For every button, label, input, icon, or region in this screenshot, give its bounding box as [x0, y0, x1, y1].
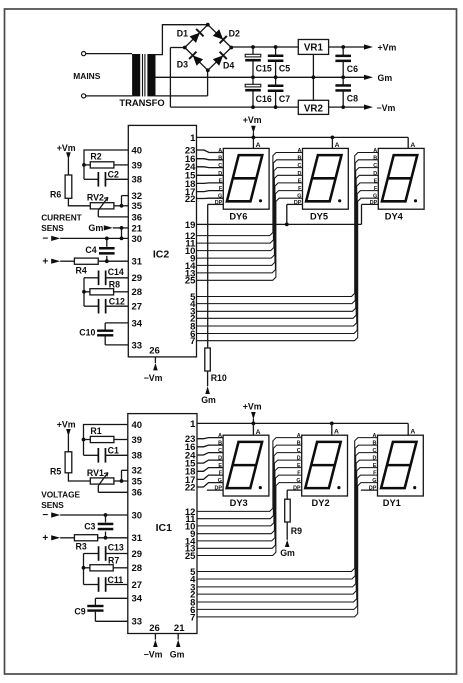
junction [120, 479, 124, 483]
terminal MAINS live [82, 52, 86, 56]
label D3 [177, 60, 188, 70]
svg-text:F: F [297, 471, 301, 477]
svg-text:C: C [372, 448, 376, 454]
svg-text:VR2: VR2 [304, 103, 324, 114]
svg-text:30: 30 [132, 510, 143, 521]
pin 16 label IC2 [185, 154, 196, 165]
capacitor C14 [84, 271, 128, 286]
7-segment display DY6 [223, 148, 269, 209]
svg-text:CURRENT: CURRENT [41, 212, 82, 222]
svg-text:21: 21 [174, 623, 185, 634]
svg-text:C8: C8 [347, 94, 358, 104]
wire pin 35 [122, 205, 129, 207]
label D4 [223, 60, 234, 70]
capacitor C1 [84, 448, 128, 463]
capacitor C5 [268, 47, 284, 77]
svg-text:Gm: Gm [378, 73, 393, 83]
svg-text:28: 28 [132, 563, 143, 574]
capacitor C2 [84, 172, 128, 187]
pin 12 label IC2 [185, 231, 196, 242]
svg-text:22: 22 [185, 194, 196, 205]
wire pin 40 branch [84, 150, 128, 179]
pin 31 label IC2 [132, 257, 143, 268]
label C8 [347, 94, 358, 104]
wire bridge DC- node down [207, 70, 209, 96]
svg-text:30: 30 [132, 234, 143, 245]
svg-text:−Vm: −Vm [144, 650, 163, 660]
svg-text:28: 28 [132, 287, 143, 298]
label C6 [347, 64, 358, 74]
label C12 [109, 297, 125, 307]
pin 38 label IC1 [132, 451, 143, 462]
label R3 [76, 541, 87, 551]
svg-text:−Vm: −Vm [144, 373, 163, 383]
wire IC1 segment bus to DY2 [197, 445, 302, 519]
wire bridge edge D2 [208, 25, 232, 48]
svg-text:A: A [372, 433, 376, 439]
pin 6 label IC1 [190, 605, 195, 616]
label C5 [279, 64, 290, 74]
wire VR1 to VR2 common [312, 54, 314, 100]
svg-text:27: 27 [132, 580, 143, 591]
wire IC2 segment bus to DY4 [197, 191, 379, 334]
svg-text:E: E [374, 178, 378, 184]
junction [274, 75, 278, 79]
pin 36 label IC1 [132, 488, 143, 499]
svg-text:+Vm: +Vm [243, 401, 262, 411]
label RV1 [87, 468, 104, 478]
7-segment display DY3 [223, 435, 269, 496]
label C9 [74, 606, 85, 616]
pin 1 label IC1 [190, 419, 196, 430]
junction [82, 163, 86, 167]
wire R5 to RV1 [68, 473, 90, 481]
wire bridge AC2 vertical [170, 48, 184, 108]
svg-text:D3: D3 [177, 60, 188, 70]
7-segment display DY1 [378, 435, 424, 496]
wire IC1 segment bus to DY1 [197, 453, 378, 587]
junction [251, 75, 255, 79]
pin 2 label IC2 [190, 314, 195, 325]
wire anode DY6 [252, 137, 254, 148]
segment pin labels DY4 [370, 148, 378, 206]
svg-text:G: G [296, 478, 300, 484]
svg-text:26: 26 [149, 623, 160, 634]
svg-text:36: 36 [132, 212, 143, 223]
junction [341, 75, 345, 79]
capacitor C6 [335, 47, 351, 77]
wire IC1 segment to DY3 [197, 460, 223, 463]
svg-text:C7: C7 [279, 94, 290, 104]
pin 32 label IC1 [132, 466, 143, 477]
svg-text:+Vm: +Vm [378, 43, 397, 53]
pin 2 label IC1 [190, 590, 195, 601]
pin 3 label IC1 [190, 582, 195, 593]
svg-text:1: 1 [190, 419, 196, 430]
wire IC2 segment bus to DY5 [197, 160, 303, 243]
pin 5 label IC2 [190, 292, 196, 303]
pin 34 label IC2 [132, 318, 143, 329]
svg-text:33: 33 [132, 340, 143, 351]
label C7 [279, 94, 290, 104]
svg-text:D: D [372, 456, 376, 462]
label C11 [108, 575, 124, 585]
wire IC2 segment bus to DY4 [197, 153, 379, 297]
label IC2 [153, 249, 170, 261]
pin 28 label IC1 [132, 563, 143, 574]
wire R6 to RV2 [68, 198, 90, 206]
svg-text:29: 29 [132, 273, 143, 284]
pin 3 label IC2 [190, 307, 195, 318]
junction [104, 513, 108, 517]
capacitor C3 [98, 515, 114, 538]
label A anode DY4 [410, 142, 415, 149]
wire anode DY2 [331, 423, 333, 435]
wire DP rail pin 19 [197, 223, 362, 225]
svg-text:7: 7 [190, 336, 195, 347]
svg-text:DY3: DY3 [230, 498, 248, 508]
svg-text:31: 31 [132, 533, 143, 544]
wire IC2 segment to DY6 [197, 159, 224, 160]
svg-text:A: A [373, 148, 377, 154]
pin 25 label IC1 [185, 551, 196, 562]
supply Gm pin 21 IC1 [170, 634, 185, 660]
svg-text:34: 34 [132, 318, 143, 329]
wire RV2 to pin 32 [122, 196, 129, 206]
svg-text:R10: R10 [211, 373, 227, 383]
svg-text:C14: C14 [108, 267, 124, 277]
pin 31 label IC1 [132, 533, 143, 544]
pin 4 label IC1 [190, 574, 196, 585]
junction [120, 204, 124, 208]
svg-text:29: 29 [132, 549, 143, 560]
junction [251, 105, 255, 109]
pin 35 label IC1 [132, 476, 143, 487]
label R1 [90, 426, 101, 436]
svg-text:SENS: SENS [41, 223, 64, 233]
pin 18 label IC1 [185, 467, 196, 478]
svg-text:26: 26 [149, 346, 160, 357]
pin 22 label IC2 [185, 194, 196, 205]
potentiometer RV2 [90, 197, 121, 210]
label RV2 [87, 193, 104, 203]
label C10 [79, 327, 95, 337]
wire IC2 segment bus to DY5 [197, 183, 303, 266]
resistor R2 [84, 162, 128, 168]
wire IC1 segment bus to DY2 [197, 468, 302, 541]
label R4 [76, 266, 87, 276]
pin 7 label IC1 [190, 612, 195, 623]
wire IC2 segment to DY6 [197, 166, 224, 169]
segment pin labels DY5 [294, 148, 302, 206]
svg-text:D2: D2 [229, 29, 240, 39]
svg-text:DY1: DY1 [383, 498, 401, 508]
wire anode DY3 [252, 423, 254, 435]
svg-text:40: 40 [132, 145, 143, 156]
capacitor C15 [245, 47, 261, 77]
svg-text:21: 21 [132, 223, 143, 234]
label R2 [90, 152, 101, 162]
pin 1 label IC2 [190, 133, 196, 144]
pin 24 label IC2 [185, 162, 196, 173]
svg-text:32: 32 [132, 466, 143, 477]
svg-text:27: 27 [132, 302, 143, 313]
wire IC2 segment bus to DY5 [197, 153, 303, 236]
svg-text:C: C [297, 163, 301, 169]
wire IC1 segment bus to DY1 [197, 445, 378, 579]
wire IC2 segment bus to DY4 [197, 183, 379, 326]
op-amp IC2 box [128, 125, 196, 357]
label C4 [85, 245, 96, 255]
supply -Vm pin 26 IC1 [144, 634, 163, 660]
op-amp IC1 box [128, 414, 197, 634]
svg-text:R4: R4 [76, 266, 87, 276]
wire pin 40 branch IC1 [84, 425, 128, 456]
pin 27 label IC1 [132, 580, 143, 591]
pin 12 label IC1 [185, 507, 196, 518]
pin 17 label IC1 [185, 475, 196, 486]
label DY1 [383, 498, 401, 508]
pin 36 label IC2 [132, 212, 143, 223]
svg-text:25: 25 [185, 551, 196, 562]
supply +Vm to R6 [57, 143, 76, 175]
svg-text:D: D [373, 171, 377, 177]
supply -Vm pin 26 IC2 [144, 357, 163, 383]
pin 9 label IC2 [190, 254, 195, 265]
net +Vm output [364, 43, 397, 53]
wire IC2 segment bus to DY5 [197, 191, 303, 273]
svg-text:B: B [373, 155, 377, 161]
label A anode DY6 [256, 142, 261, 149]
junction [82, 290, 86, 294]
label D1 [177, 29, 188, 39]
pin 27 label IC2 [132, 302, 143, 313]
svg-text:R6: R6 [50, 189, 61, 199]
capacitor C13 [84, 546, 128, 561]
svg-text:E: E [373, 463, 377, 469]
wire IC1 segment to DY3 [197, 445, 223, 447]
wire IC2 segment to DY6 [197, 191, 224, 192]
svg-text:VOLTAGE: VOLTAGE [41, 489, 80, 499]
wire IC2 segment bus to DY4 [197, 168, 379, 312]
supply Gm below R10 [201, 371, 216, 405]
svg-text:D1: D1 [177, 29, 188, 39]
junction [82, 438, 86, 442]
label C13 [108, 543, 124, 553]
pin 21 label IC2 [132, 223, 143, 234]
wire bridge edge D3 [185, 48, 208, 71]
label C1 [108, 446, 119, 456]
pin 15 label IC1 [185, 459, 196, 470]
pin 5 label IC1 [190, 567, 196, 578]
svg-text:C11: C11 [108, 575, 124, 585]
label D2 [229, 29, 240, 39]
pin 19 label IC2 [185, 220, 196, 231]
junction [331, 136, 335, 140]
pin 10 label IC2 [185, 246, 196, 257]
pin 29 label IC1 [132, 549, 143, 560]
label R8 [109, 280, 120, 290]
capacitor C9 [87, 598, 128, 621]
label R5 [50, 466, 61, 476]
junction [312, 75, 316, 79]
svg-text:D: D [297, 171, 301, 177]
resistor R5 [65, 452, 72, 473]
label IC1 [156, 522, 173, 534]
label C14 [108, 267, 124, 277]
pin 29 label IC2 [132, 273, 143, 284]
capacitor C10 [97, 323, 128, 345]
wire C13 R7 C11 bracket [83, 554, 85, 585]
pin 39 label IC1 [132, 435, 143, 446]
svg-text:C4: C4 [85, 245, 96, 255]
wire DY6 DP to R10 [208, 204, 224, 348]
node bridge DC- bottom [206, 68, 210, 72]
svg-text:+: + [42, 256, 48, 267]
junction [285, 223, 289, 227]
wire MAINS live to transformer [86, 53, 132, 55]
wire IC1 segment to DY3 [197, 468, 223, 472]
svg-text:C12: C12 [109, 297, 125, 307]
svg-text:+Vm: +Vm [57, 143, 76, 153]
svg-text:+Vm: +Vm [57, 419, 76, 429]
capacitor C8 [335, 77, 351, 107]
terminal MAINS neutral [82, 94, 86, 98]
pin 28 label IC2 [132, 287, 143, 298]
wire IC2 segment to DY6 [197, 182, 224, 185]
label DY2 [312, 498, 330, 508]
node bridge AC left [183, 46, 187, 50]
label C2 [108, 170, 119, 180]
junction [330, 422, 334, 426]
wire IC1 segment bus to DY2 [197, 475, 302, 548]
wire IC1 segment bus to DY2 [197, 460, 302, 534]
label C15 [256, 64, 272, 74]
svg-text:B: B [297, 155, 301, 161]
pin 8 label IC2 [190, 321, 195, 332]
junction [105, 237, 109, 241]
svg-text:34: 34 [132, 594, 143, 605]
svg-text:31: 31 [132, 257, 143, 268]
pin 34 label IC1 [132, 594, 143, 605]
svg-text:35: 35 [132, 201, 143, 212]
wire IC2 segment bus to DY4 [197, 160, 379, 304]
capacitor C4 [99, 238, 115, 261]
svg-text:B: B [297, 441, 301, 447]
svg-text:C3: C3 [84, 522, 95, 532]
regulator VR1 [298, 40, 328, 55]
wire IC1 segment to DY3 [197, 453, 223, 455]
wire bridge edge D4 [208, 48, 232, 71]
svg-text:Gm: Gm [88, 223, 103, 233]
svg-text:C: C [297, 448, 301, 454]
pin 22 label IC1 [185, 482, 196, 493]
svg-text:C13: C13 [108, 543, 124, 553]
resistor R1 [84, 436, 128, 442]
resistor R4 [74, 258, 128, 264]
segment pin labels DY3 [215, 433, 223, 492]
junction [105, 259, 109, 263]
svg-text:DY5: DY5 [310, 212, 328, 222]
wire RV2 wiper to pin 36 [98, 210, 128, 217]
wire IC1 segment to DY3 [197, 438, 223, 439]
wire DY3 DP stub [207, 489, 223, 491]
svg-text:G: G [373, 194, 377, 200]
svg-text:C16: C16 [256, 94, 272, 104]
svg-text:C10: C10 [79, 327, 95, 337]
junction [252, 136, 256, 140]
wire Gm to minus rail [121, 228, 123, 239]
svg-text:R2: R2 [90, 152, 101, 162]
resistor R9 [285, 499, 291, 522]
svg-text:RV2: RV2 [87, 193, 104, 203]
potentiometer RV1 [90, 473, 121, 486]
svg-text:−: − [42, 510, 48, 521]
pin 25 label IC2 [185, 276, 196, 287]
pin 14 label IC2 [185, 261, 196, 272]
junction [251, 45, 255, 49]
label DY4 [385, 212, 404, 222]
wire +Vm anode rail IC2 pin 1 [197, 137, 409, 148]
svg-text:TRANSFO: TRANSFO [119, 97, 164, 108]
junction [252, 422, 256, 426]
svg-text:+: + [42, 533, 48, 544]
svg-text:19: 19 [185, 220, 196, 231]
pin 40 label IC1 [132, 420, 143, 431]
pin 8 label IC1 [190, 597, 195, 608]
capacitor C16 [245, 77, 261, 107]
label A anode DY1 [410, 429, 415, 436]
wire RV1 wiper to pin 36 [98, 486, 128, 493]
wire IC2 segment bus to DY4 [197, 175, 379, 318]
wire RV1 to pin 32 [122, 470, 128, 481]
wire secondary center tap Gm rail [156, 76, 365, 78]
node bridge DC+ right [229, 46, 233, 50]
pin 40 label IC2 [132, 145, 143, 156]
pin 10 label IC1 [185, 521, 196, 532]
label R6 [50, 189, 61, 199]
diode D2 [213, 29, 227, 43]
wire IC2 segment bus to DY4 [197, 198, 379, 341]
svg-text:Gm: Gm [170, 650, 185, 660]
label C16 [256, 94, 272, 104]
capacitor C12 [84, 299, 128, 314]
svg-text:C15: C15 [256, 64, 272, 74]
svg-text:E: E [297, 463, 301, 469]
label CURRENT SENS [41, 212, 82, 233]
wire IC1 segment bus to DY2 [197, 453, 302, 526]
svg-text:B: B [372, 441, 376, 447]
diode D4 [213, 52, 227, 66]
svg-text:RV1: RV1 [87, 468, 104, 478]
pin 33 label IC2 [132, 340, 143, 351]
svg-text:39: 39 [132, 160, 143, 171]
svg-text:IC2: IC2 [153, 249, 170, 261]
wire C14 R8 C12 bracket [83, 278, 85, 306]
svg-text:F: F [374, 186, 378, 192]
label DY6 [229, 212, 247, 222]
pin 11 label IC1 [185, 514, 196, 525]
label A anode DY5 [335, 142, 340, 149]
supply Gm below R9 [280, 522, 295, 558]
pin 33 label IC1 [132, 617, 143, 628]
pin 24 label IC1 [185, 450, 196, 461]
wire DY1 DP stub [361, 489, 378, 491]
svg-text:36: 36 [132, 488, 143, 499]
resistor R8 [84, 289, 128, 295]
supply +Vm displays top [243, 115, 262, 137]
junction [120, 237, 124, 241]
